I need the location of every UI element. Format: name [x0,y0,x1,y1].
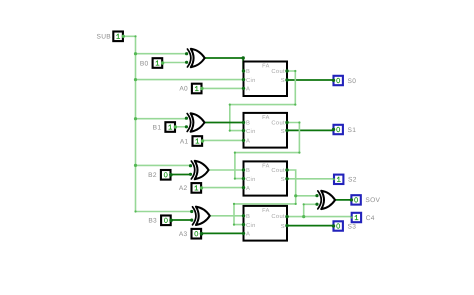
junction Cout1 corner a [298,121,300,123]
junction Cout3 to SOV branch [302,215,305,218]
junction Cout0 corner a [294,70,296,72]
wire SUB to FA0 Cin [136,79,244,81]
wire FA1 S to S1 [287,129,334,131]
output S0 [332,76,356,85]
svg-text:Cin: Cin [246,176,256,183]
wire XOR1 out to FA1 B [204,122,243,124]
svg-text:FA: FA [262,164,270,170]
full adder FA3 [242,206,289,241]
junction SUB corner XOR3 [134,210,136,212]
wire A1 to FA1 A [202,139,244,141]
svg-text:A: A [246,138,250,144]
junction Cout2 to SOV branch [294,194,297,197]
output S3 [332,221,356,230]
svg-text:S: S [281,223,285,230]
svg-text:B1: B1 [153,124,162,131]
junction Cout2 corner c [233,203,235,205]
input A3 [179,229,203,239]
svg-text:Cout: Cout [271,213,285,220]
wire FA0 Cout to FA1 Cin [230,71,295,131]
output SOV [350,195,381,204]
svg-text:Cout: Cout [271,167,285,174]
wire FA2 S to S2 [287,178,334,180]
svg-text:FA: FA [262,115,270,121]
wire SUB to XOR2 top input [136,164,191,166]
svg-text:S1: S1 [348,127,357,134]
junction SUB corner [134,35,136,37]
wire A3 to FA3 A [201,232,244,234]
svg-text:SUB: SUB [97,34,112,41]
wire branch to SOV XOR top input [296,195,317,197]
xor gate U2 bit1 [185,113,205,131]
svg-text:B: B [246,214,250,220]
junction Cout2 corner d [233,224,235,226]
output C4 [351,213,375,222]
input A1 [180,136,204,146]
svg-text:A: A [246,232,250,238]
svg-text:SOV: SOV [365,197,380,204]
svg-text:B: B [246,69,250,75]
wire XOR2 out to FA2 B [208,169,243,171]
input B0 [140,58,164,68]
input SUB [97,32,125,42]
wire SUB distribution vertical [123,36,135,211]
svg-text:Cout: Cout [271,120,285,127]
svg-text:A2: A2 [179,185,188,192]
junction SUB to XOR2 [134,164,137,167]
svg-text:FA: FA [262,64,270,70]
wire FA0 S to S0 [287,79,333,81]
junction Cout0 corner b [294,104,296,106]
junction Cout1 corner c [234,152,236,154]
junction Cout2 corner b [295,203,297,205]
wire A2 to FA2 A [201,187,244,189]
svg-text:Cout: Cout [271,68,285,75]
input B2 [148,170,173,180]
svg-text:Cin: Cin [246,77,256,84]
input B3 [148,216,173,226]
wire branch to SOV XOR bottom input [304,204,317,216]
svg-text:A: A [246,87,250,93]
input A0 [179,84,203,94]
full adder FA1 [242,113,289,148]
junction Cout1 corner d [234,178,236,180]
wire B0 to XOR0 [162,62,187,64]
svg-text:A1: A1 [180,138,189,145]
output S1 [332,125,356,134]
wire A0 to FA0 A [201,87,244,89]
wire FA3 Cout to C4 [287,216,352,218]
output S2 [333,175,357,184]
junction Cout0 corner d [229,130,231,132]
svg-text:S2: S2 [348,177,357,184]
input A2 [179,183,203,193]
svg-text:B3: B3 [148,218,157,225]
full adder FA0 [242,62,289,97]
svg-text:FA: FA [262,208,270,214]
junction SUB to XOR1 [134,117,137,120]
wire XOR0 out to FA0 B [204,58,243,71]
svg-text:S: S [281,176,285,183]
wire FA3 S to S3 [287,225,334,227]
svg-text:S0: S0 [348,78,357,85]
svg-text:A0: A0 [179,86,188,93]
svg-text:C4: C4 [366,215,375,222]
junction XOR0 corner [242,56,245,59]
junction SUB to XOR0 [134,52,137,55]
svg-text:S: S [281,77,285,84]
wire SUB to XOR1 top input [136,118,187,120]
xor gate U4 bit3 [190,207,210,225]
svg-text:B0: B0 [140,60,149,67]
svg-text:A: A [246,186,250,192]
xor gate U5 overflow [315,191,335,209]
wire SUB to XOR3 top input [136,211,193,213]
wire FA1 Cout to FA2 Cin [235,123,300,179]
input B1 [153,122,177,132]
junction SUB to Cin0 [134,78,137,81]
wire B2 to XOR2 [170,174,191,176]
svg-text:Cin: Cin [246,128,256,135]
full adder FA2 [242,161,289,195]
wire B3 to XOR3 [170,219,192,221]
wire SUB to XOR0 top input [136,53,187,55]
svg-text:A3: A3 [179,231,188,238]
svg-text:B: B [246,121,250,127]
wire FA2 Cout chain to SOV XOR and FA3 Cin [234,170,296,225]
wire XOR3 out to FA3 B [210,215,244,217]
svg-text:Cin: Cin [246,222,256,229]
svg-text:B2: B2 [148,172,157,179]
wire SOV XOR out to SOV [335,199,352,201]
junction Cout3 corner up [303,203,305,205]
wire B1 to XOR1 [175,126,187,128]
junction Cout0 corner c [229,104,231,106]
junction Cout1 corner b [298,152,300,154]
svg-text:S3: S3 [348,223,357,230]
svg-text:S: S [281,128,285,135]
svg-text:B: B [246,168,250,174]
xor gate U3 bit2 [189,161,209,179]
xor gate U1 bit0 [185,49,205,67]
